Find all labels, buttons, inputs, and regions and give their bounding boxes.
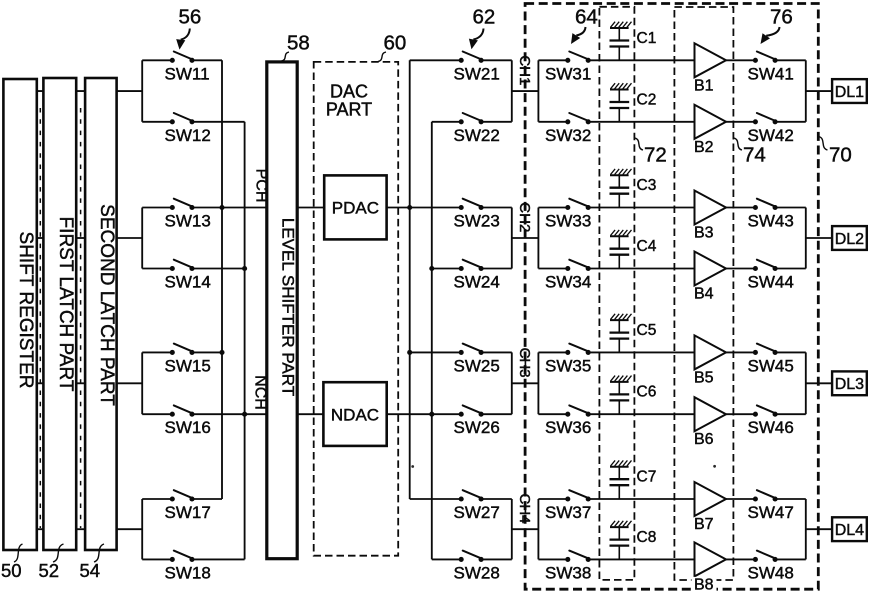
svg-text:SW43: SW43 xyxy=(748,212,794,231)
svg-text:SW16: SW16 xyxy=(165,418,211,437)
svg-text:C8: C8 xyxy=(637,529,657,546)
svg-text:C5: C5 xyxy=(637,322,657,339)
svg-text:SW26: SW26 xyxy=(454,418,500,437)
svg-text:B6: B6 xyxy=(694,431,714,448)
svg-text:DL1: DL1 xyxy=(835,84,864,101)
svg-text:DAC: DAC xyxy=(330,82,368,102)
svg-text:SW28: SW28 xyxy=(454,563,500,582)
svg-text:SW23: SW23 xyxy=(454,212,500,231)
svg-text:SECOND LATCH PART: SECOND LATCH PART xyxy=(96,204,117,406)
svg-text:SW35: SW35 xyxy=(545,356,591,375)
svg-text:60: 60 xyxy=(384,32,407,55)
svg-text:SW48: SW48 xyxy=(748,563,794,582)
svg-text:DL4: DL4 xyxy=(835,522,864,539)
svg-text:SW15: SW15 xyxy=(165,356,211,375)
svg-text:B5: B5 xyxy=(694,369,714,386)
svg-text:SW27: SW27 xyxy=(454,503,500,522)
svg-text:54: 54 xyxy=(80,560,101,581)
svg-text:LEVEL SHIFTER PART: LEVEL SHIFTER PART xyxy=(279,218,298,396)
svg-text:62: 62 xyxy=(473,5,496,28)
svg-text:72: 72 xyxy=(644,144,667,167)
svg-text:SHIFT REGISTER: SHIFT REGISTER xyxy=(15,232,36,389)
svg-text:SW33: SW33 xyxy=(545,212,591,231)
svg-text:52: 52 xyxy=(39,560,60,581)
svg-text:SW44: SW44 xyxy=(748,273,794,292)
svg-text:SW41: SW41 xyxy=(748,64,794,83)
svg-text:B8: B8 xyxy=(694,576,714,593)
svg-text:SW21: SW21 xyxy=(454,64,500,83)
svg-text:SW14: SW14 xyxy=(165,273,211,292)
svg-text:C7: C7 xyxy=(637,469,657,486)
svg-text:SW13: SW13 xyxy=(165,212,211,231)
svg-text:DL3: DL3 xyxy=(835,376,864,393)
svg-text:SW46: SW46 xyxy=(748,418,794,437)
svg-text:64: 64 xyxy=(575,5,598,28)
svg-text:SW31: SW31 xyxy=(545,64,591,83)
svg-text:SW18: SW18 xyxy=(165,563,211,582)
svg-text:SW17: SW17 xyxy=(165,503,211,522)
svg-text:SW25: SW25 xyxy=(454,356,500,375)
svg-text:SW36: SW36 xyxy=(545,418,591,437)
svg-text:74: 74 xyxy=(743,144,766,167)
svg-text:PDAC: PDAC xyxy=(332,199,379,218)
svg-text:CH3: CH3 xyxy=(516,348,533,378)
svg-text:B1: B1 xyxy=(694,77,714,94)
svg-text:76: 76 xyxy=(770,5,793,28)
svg-text:56: 56 xyxy=(179,5,202,28)
svg-text:58: 58 xyxy=(287,32,310,55)
svg-text:70: 70 xyxy=(829,144,852,167)
svg-text:NDAC: NDAC xyxy=(331,405,379,424)
svg-text:C2: C2 xyxy=(637,91,657,108)
svg-text:PART: PART xyxy=(326,100,372,120)
svg-text:SW45: SW45 xyxy=(748,356,794,375)
svg-text:C6: C6 xyxy=(637,384,657,401)
svg-text:50: 50 xyxy=(1,560,22,581)
svg-text:B3: B3 xyxy=(694,225,714,242)
svg-text:SW34: SW34 xyxy=(545,273,591,292)
svg-text:B4: B4 xyxy=(694,286,714,303)
svg-text:SW47: SW47 xyxy=(748,503,794,522)
svg-text:CH4: CH4 xyxy=(516,493,533,523)
svg-text:CH1: CH1 xyxy=(516,55,533,85)
svg-text:C1: C1 xyxy=(637,30,657,47)
svg-text:SW32: SW32 xyxy=(545,126,591,145)
svg-text:FIRST LATCH PART: FIRST LATCH PART xyxy=(55,217,76,392)
svg-text:CH2: CH2 xyxy=(516,202,533,232)
svg-text:SW22: SW22 xyxy=(454,126,500,145)
svg-text:SW11: SW11 xyxy=(165,64,210,83)
svg-text:SW42: SW42 xyxy=(748,126,794,145)
svg-text:B7: B7 xyxy=(694,516,714,533)
svg-text:SW24: SW24 xyxy=(454,273,500,292)
svg-text:SW37: SW37 xyxy=(545,503,591,522)
svg-text:B2: B2 xyxy=(694,139,714,156)
svg-text:SW12: SW12 xyxy=(165,126,211,145)
svg-text:C3: C3 xyxy=(637,177,657,194)
svg-text:DL2: DL2 xyxy=(835,231,864,248)
svg-text:C4: C4 xyxy=(637,238,657,255)
svg-text:SW38: SW38 xyxy=(545,563,591,582)
